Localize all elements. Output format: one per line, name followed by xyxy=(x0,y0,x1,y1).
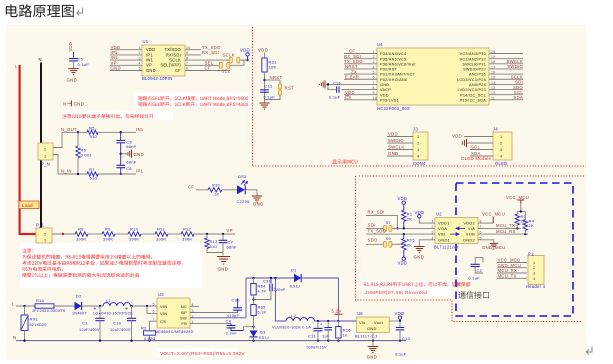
svg-text:VIB: VIB xyxy=(438,232,445,237)
blue dashed box - communication interface xyxy=(456,183,573,316)
wire N_IN rail xyxy=(58,173,87,175)
J3 pin 4 GND xyxy=(387,155,413,157)
regulator U6 BL1117 body xyxy=(357,317,390,333)
wire U1 pin8 SCLK xyxy=(185,59,230,61)
wire CF to R30 xyxy=(196,189,208,191)
svg-text:RV1: RV1 xyxy=(30,317,39,322)
white backdrop notice block xyxy=(20,243,202,288)
LED DS3 C2295 xyxy=(237,185,245,194)
svg-text:U4: U4 xyxy=(377,42,383,47)
svg-text:N: N xyxy=(13,335,17,340)
U1 left pin 1 VDD xyxy=(110,49,142,51)
svg-text:U6: U6 xyxy=(357,311,363,316)
svg-text:Vin: Vin xyxy=(359,320,365,325)
power port VDD above jumpers xyxy=(247,56,249,60)
wire L to P_L xyxy=(19,233,36,235)
svg-text:R10: R10 xyxy=(130,227,139,232)
svg-text:DS3: DS3 xyxy=(238,174,247,179)
resistor R64 xyxy=(253,278,255,284)
svg-text:GND_MCU: GND_MCU xyxy=(498,263,521,268)
wire R8-R9 xyxy=(88,233,102,235)
svg-text:1: 1 xyxy=(533,261,535,265)
svg-text:GND1: GND1 xyxy=(438,237,451,242)
svg-text:VDD: VDD xyxy=(452,134,462,139)
svg-text:CS: CS xyxy=(160,319,166,324)
svg-text:10uF/400V: 10uF/400V xyxy=(79,328,100,332)
jumper SEL pads xyxy=(219,62,222,68)
svg-text:R64: R64 xyxy=(258,284,267,289)
svg-text:MCU_RX: MCU_RX xyxy=(496,229,516,234)
svg-text:VLU0810-102K 0.1A: VLU0810-102K 0.1A xyxy=(272,326,311,330)
svg-text:SDO: SDO xyxy=(368,237,378,242)
svg-text:1K: 1K xyxy=(214,192,219,197)
svg-text:C13: C13 xyxy=(402,336,411,341)
J4 pin4 SDA xyxy=(470,155,493,157)
svg-text:Vout: Vout xyxy=(374,320,384,325)
svg-text:AN0/P24: AN0/P24 xyxy=(469,83,486,87)
svg-text:SWDIO: SWDIO xyxy=(388,138,404,143)
capacitor C12 xyxy=(327,321,329,327)
U1 left pin 5 GND xyxy=(110,70,142,72)
wire feedback node xyxy=(244,327,254,331)
resistor R13 xyxy=(206,234,208,238)
wire P_L to R8 xyxy=(52,233,75,235)
svg-text:MCU_TX: MCU_TX xyxy=(498,274,517,279)
svg-text:VOA: VOA xyxy=(438,226,447,231)
title 电路原理图 xyxy=(6,4,74,17)
svg-text:68nF: 68nF xyxy=(126,159,136,164)
svg-text:CF: CF xyxy=(188,184,194,189)
svg-text:6: 6 xyxy=(153,310,155,314)
svg-text:1: 1 xyxy=(500,135,502,139)
U1 left pin 4 VP xyxy=(110,64,142,66)
svg-text:P_L: P_L xyxy=(36,222,45,227)
svg-text:2: 2 xyxy=(432,225,434,229)
svg-text:P03/LVD1: P03/LVD1 xyxy=(380,98,399,102)
svg-text:OLED Module: OLED Module xyxy=(461,156,492,161)
wire P_N pin1 to N_IN xyxy=(53,155,58,175)
capacitor C16 on VACP xyxy=(342,89,378,91)
svg-text:1: 1 xyxy=(44,239,46,243)
ground left-pointing at U4 pin7 xyxy=(324,80,326,88)
svg-text:Load: Load xyxy=(22,203,33,208)
resistor R6 shunt xyxy=(76,146,80,158)
red dotted partition - display MCU section xyxy=(253,27,587,166)
svg-text:P14/I2C_SCL: P14/I2C_SCL xyxy=(460,93,486,97)
svg-text:SDI: SDI xyxy=(368,222,376,227)
svg-text:390K: 390K xyxy=(103,236,113,241)
inductor L1 xyxy=(103,303,131,306)
svg-text:C1: C1 xyxy=(82,321,88,326)
J3 pin 1 VDD xyxy=(387,136,413,138)
ground rail bottom xyxy=(16,340,406,342)
wire U4 right pin 18 xyxy=(489,63,523,65)
resistor R30 xyxy=(208,188,222,192)
P1 pin 1 VCC_MCU xyxy=(497,262,527,264)
wire SDI to S7 xyxy=(366,227,384,229)
connector P_N xyxy=(38,143,53,160)
wire U4 pin9 VDD xyxy=(344,94,377,96)
svg-text:C10: C10 xyxy=(113,321,122,326)
svg-text:P00/RST: P00/RST xyxy=(380,68,398,72)
capacitor C10 electrolytic xyxy=(131,306,133,318)
wire RX_SDI xyxy=(366,215,397,228)
wire L2 to U6 xyxy=(314,320,356,322)
wire S9 to R15 column xyxy=(392,243,404,245)
capacitor C2 decoupling xyxy=(475,258,483,264)
wire N_OUT rail xyxy=(62,131,87,133)
white backdrop gnd note xyxy=(61,111,173,120)
svg-text:U3: U3 xyxy=(158,292,164,297)
svg-text:P15/I2C_SDA: P15/I2C_SDA xyxy=(460,98,487,102)
J4 pin2 GND bars xyxy=(467,142,493,144)
Load tag xyxy=(19,201,39,209)
svg-text:SWCLK/P31: SWCLK/P31 xyxy=(462,62,486,66)
svg-text:+: + xyxy=(94,307,97,313)
svg-text:0.1uF: 0.1uF xyxy=(395,352,407,357)
svg-text:E.EAR: E.EAR xyxy=(345,74,359,79)
white backdrop vout note xyxy=(157,348,238,357)
svg-text:N_OUT: N_OUT xyxy=(61,127,77,132)
connector P_L xyxy=(36,228,52,243)
svg-text:C31: C31 xyxy=(263,278,272,283)
svg-text:JFC2410-0500TS: JFC2410-0500TS xyxy=(32,309,66,313)
svg-text:D2: D2 xyxy=(76,294,82,299)
svg-text:R8: R8 xyxy=(78,227,84,232)
svg-text:R30: R30 xyxy=(212,183,221,188)
wire U3 NC stub xyxy=(190,305,199,307)
power port VDD output xyxy=(399,319,401,321)
svg-text:MCU_TX: MCU_TX xyxy=(496,223,515,228)
svg-text:VDD: VDD xyxy=(398,260,408,265)
J3 pin 2 SWDIO xyxy=(387,142,413,144)
svg-text:P1: P1 xyxy=(528,251,534,256)
svg-text:U2: U2 xyxy=(436,212,442,217)
svg-text:OLED: OLED xyxy=(495,161,507,166)
svg-text:LVD2/VC0/P23: LVD2/VC0/P23 xyxy=(458,88,486,92)
svg-text:R9: R9 xyxy=(105,227,111,232)
wire U4 pin3 net TX_SDO xyxy=(344,63,377,65)
svg-text:N: N xyxy=(39,57,42,62)
wire U4 pin7 GND xyxy=(326,83,377,85)
white backdrop uart notes xyxy=(134,92,251,108)
wire U1 pin9 RX_SDI xyxy=(185,54,201,56)
resistor R65 xyxy=(251,305,256,316)
wire R11-R12 xyxy=(168,233,181,235)
wire S7 to U2 VOA xyxy=(392,227,435,229)
wire U4 pin1 net CF xyxy=(344,53,377,55)
power port VDD bottom of R15 xyxy=(402,257,405,260)
svg-text:RST: RST xyxy=(285,85,294,90)
svg-text:VDD: VDD xyxy=(398,196,408,201)
svg-text:VDD: VDD xyxy=(415,210,425,215)
annotation precision resistor notes xyxy=(22,248,33,252)
wire P_N pin2 to N_OUT xyxy=(53,132,62,147)
wire R14 to D2 xyxy=(54,305,75,307)
wire R12 to VP xyxy=(194,233,235,235)
svg-text:BP: BP xyxy=(181,310,187,315)
svg-text:SCLK: SCLK xyxy=(223,53,235,58)
svg-text:GND: GND xyxy=(253,202,264,207)
svg-text:CON4: CON4 xyxy=(413,161,426,166)
svg-text:GND: GND xyxy=(134,152,145,157)
svg-text:C11: C11 xyxy=(308,334,316,339)
capacitor C3 xyxy=(120,132,122,140)
svg-text:2.2nF: 2.2nF xyxy=(226,332,237,336)
resistor R1 xyxy=(402,210,406,222)
wire U3 FB to feedback xyxy=(190,322,231,324)
label 显示用MCU xyxy=(332,160,357,164)
wire TX_SDO to U2 VIB xyxy=(366,233,435,235)
svg-text:68nF: 68nF xyxy=(227,244,237,249)
resistor R15 xyxy=(403,234,405,238)
wire U1 pin6 CF xyxy=(185,70,230,72)
svg-text:3: 3 xyxy=(432,231,434,235)
inductor L2 xyxy=(275,278,286,321)
wire U1 pin10 TX_SDO xyxy=(185,49,201,51)
svg-text:C5: C5 xyxy=(78,57,84,62)
svg-text:P02/XHO/AN8: P02/XHO/AN8 xyxy=(380,78,407,82)
svg-text:SEL: SEL xyxy=(222,69,231,74)
svg-text:AN1/P26: AN1/P26 xyxy=(469,73,486,77)
svg-text:J3: J3 xyxy=(413,126,418,131)
wire SCLK jumper to VDD node xyxy=(240,59,248,61)
svg-text:BL1117-3.3: BL1117-3.3 xyxy=(355,333,378,338)
resistor R9 xyxy=(102,232,115,236)
wire L input xyxy=(16,305,35,307)
svg-text:4: 4 xyxy=(500,155,502,159)
svg-text:C2295: C2295 xyxy=(237,199,251,204)
jumper SCLK pads xyxy=(229,57,232,63)
svg-text:390K: 390K xyxy=(156,236,166,241)
svg-text:68nF: 68nF xyxy=(126,144,136,149)
wire U4 right pin 17 xyxy=(489,68,523,70)
wire U2 pin7 MCU_TX xyxy=(478,227,521,229)
svg-text:U1: U1 xyxy=(143,39,149,44)
wire U4 right pin 11 xyxy=(489,99,523,101)
svg-text:5: 5 xyxy=(153,303,155,307)
svg-text:R65: R65 xyxy=(258,305,267,310)
svg-text:510: 510 xyxy=(90,134,98,139)
svg-text:4: 4 xyxy=(533,277,535,281)
svg-text:L2: L2 xyxy=(291,313,296,318)
U2 internal arrows xyxy=(450,227,465,236)
annotation GND separate wiring xyxy=(62,114,153,119)
svg-text:VDD: VDD xyxy=(388,132,398,137)
resistor R31 xyxy=(262,58,267,72)
diode D2 1N4007 xyxy=(75,302,82,310)
svg-text:3: 3 xyxy=(417,148,419,152)
svg-text:GND: GND xyxy=(388,151,398,156)
op-amp U1 BL0942 body xyxy=(142,45,185,76)
annotation UART pull-up note xyxy=(364,282,470,287)
resistor R10 xyxy=(128,232,141,236)
svg-text:VCC_MCU: VCC_MCU xyxy=(506,195,529,200)
wire U4 pin4 net NRST xyxy=(344,68,377,70)
connector P1 Header4 xyxy=(528,256,544,285)
svg-text:P01/XHI/ANT/VC7: P01/XHI/ANT/VC7 xyxy=(380,73,415,77)
net label VCC_MCU at U2 pin8 xyxy=(478,222,493,224)
wire U4 right pin 19 xyxy=(489,58,523,60)
svg-text:VDD: VDD xyxy=(240,48,250,53)
svg-text:5.2V: 5.2V xyxy=(332,308,342,313)
svg-text:R16: R16 xyxy=(343,328,352,333)
svg-text:4: 4 xyxy=(417,155,419,159)
wire D1 to output node xyxy=(301,278,338,314)
svg-text:2: 2 xyxy=(533,266,535,270)
white backdrop pullup note xyxy=(362,280,452,296)
svg-text:2: 2 xyxy=(44,233,46,237)
svg-text:C6: C6 xyxy=(126,166,132,171)
J4 pin3 SCL xyxy=(470,149,493,151)
svg-text:C16: C16 xyxy=(333,81,342,86)
wire R6 vertical xyxy=(77,132,79,146)
svg-text:2K: 2K xyxy=(407,216,412,221)
ground between C3 and C6 xyxy=(121,153,126,155)
svg-text:2K: 2K xyxy=(407,243,412,248)
wire R5 to IN1 xyxy=(98,131,136,133)
svg-text:0.001: 0.001 xyxy=(81,153,93,158)
P1 pin 2 GND_MCU xyxy=(497,267,527,269)
svg-text:GND_MCU: GND_MCU xyxy=(482,245,505,250)
svg-text:SDA: SDA xyxy=(513,95,523,100)
svg-text:VC2/AN2/P32: VC2/AN2/P32 xyxy=(460,57,486,61)
svg-text:HC32F003_06S: HC32F003_06S xyxy=(377,106,410,111)
svg-text:NC: NC xyxy=(181,304,187,309)
svg-text:VDD1: VDD1 xyxy=(438,221,450,226)
svg-text:0.1uF: 0.1uF xyxy=(469,276,481,281)
svg-text:N_IN: N_IN xyxy=(61,169,72,174)
regulator U3 ME8604 body xyxy=(157,298,190,328)
ground for C5 xyxy=(68,68,78,70)
svg-text:2: 2 xyxy=(44,148,46,152)
svg-text:+: + xyxy=(125,307,128,313)
svg-text:VIN: VIN xyxy=(160,311,167,316)
wire U4 right pin 20 xyxy=(489,53,523,55)
wire R9-R10 xyxy=(115,233,128,235)
svg-text:CF: CF xyxy=(205,66,211,71)
varistor RV1 xyxy=(24,306,26,315)
label 通信接口 xyxy=(458,291,489,298)
J3 pin 3 SWCLK xyxy=(387,149,413,151)
svg-text:MCU_RX: MCU_RX xyxy=(498,268,518,273)
svg-text:2: 2 xyxy=(417,142,419,146)
svg-text:VACP: VACP xyxy=(380,88,391,92)
resistor R11 xyxy=(155,232,168,236)
svg-text:1K: 1K xyxy=(343,334,348,338)
svg-text:RX_SDI: RX_SDI xyxy=(368,209,385,214)
capacitor C15 xyxy=(260,89,269,91)
svg-text:N: N xyxy=(63,101,67,106)
svg-text:390K: 390K xyxy=(76,236,86,241)
wire U2 pin6 MCU_RX xyxy=(478,233,528,235)
capacitor C30 xyxy=(190,312,238,314)
svg-text:2: 2 xyxy=(139,51,141,55)
svg-text:1: 1 xyxy=(44,155,46,159)
svg-text:4.7K: 4.7K xyxy=(258,290,267,294)
svg-text:BL0942-10PIN: BL0942-10PIN xyxy=(142,76,172,81)
svg-text:0.1uF: 0.1uF xyxy=(264,95,276,100)
svg-text:S9: S9 xyxy=(386,236,392,241)
svg-text:3: 3 xyxy=(533,272,535,276)
svg-text:P34/AN4/VC4: P34/AN4/VC4 xyxy=(380,52,406,56)
svg-text:P35/AN5/VC5: P35/AN5/VC5 xyxy=(380,57,406,61)
U1 left pin 2 IP1 xyxy=(110,54,142,56)
svg-text:VDD: VDD xyxy=(258,48,268,53)
svg-text:ES1J: ES1J xyxy=(259,336,269,340)
resistor R7 xyxy=(87,172,98,176)
fusible resistor R14 xyxy=(35,304,54,308)
svg-text:C15: C15 xyxy=(265,83,274,88)
wire U4 right pin 12 xyxy=(489,94,523,96)
diode D3 ES1J xyxy=(250,331,258,337)
svg-text:NRST: NRST xyxy=(270,75,283,80)
svg-text:510: 510 xyxy=(90,176,98,181)
connector J4 OLED xyxy=(493,132,512,160)
svg-text:BLT1121AH: BLT1121AH xyxy=(434,245,458,250)
capacitor C5 xyxy=(69,58,78,60)
svg-text:GND: GND xyxy=(146,68,156,73)
wire U4 pin2 net RX_SDI xyxy=(344,58,377,60)
capacitor C11 electrolytic xyxy=(317,321,319,328)
svg-text:FB: FB xyxy=(181,321,187,326)
resistor R2 current sense xyxy=(150,321,158,330)
capacitor C8 xyxy=(230,323,232,325)
ground GND_MCU at U2 pin5 xyxy=(478,240,494,243)
svg-text:VOB: VOB xyxy=(466,232,475,237)
P1 pin 4 MCU_TX xyxy=(497,277,527,279)
svg-text:2: 2 xyxy=(500,142,502,146)
svg-text:L1: L1 xyxy=(106,298,111,303)
wire LED to ground xyxy=(245,190,257,196)
annotation UART mode notes xyxy=(138,96,248,101)
wire R7 to IP1 xyxy=(98,173,136,175)
svg-text:LCD3/VC1/P25: LCD3/VC1/P25 xyxy=(457,78,486,82)
svg-text:SW: SW xyxy=(180,315,187,320)
svg-text:VDD: VDD xyxy=(395,311,405,316)
wire U4 pin6 net E.EAR xyxy=(344,78,377,80)
svg-text:S7: S7 xyxy=(386,220,392,225)
svg-text:IP1: IP1 xyxy=(136,169,144,174)
wire L1 to U3 xyxy=(131,305,157,307)
resistor R8 xyxy=(75,232,88,236)
capacitor C6 xyxy=(120,154,122,165)
svg-text:CS: CS xyxy=(345,95,351,100)
svg-text:P36/AN6/VC6/Vref: P36/AN6/VC6/Vref xyxy=(380,62,416,66)
resistor R16 xyxy=(337,321,339,327)
wire U4 right pin 13 xyxy=(489,89,523,91)
svg-text:GND: GND xyxy=(67,78,78,83)
wire R31 to NRST node xyxy=(264,72,266,100)
svg-text:SCL: SCL xyxy=(471,145,480,150)
svg-text:10uF/400V: 10uF/400V xyxy=(110,328,131,332)
ground U2 left xyxy=(419,240,435,246)
wire VCC_MCU to R3 R4 xyxy=(520,204,522,212)
svg-text:L: L xyxy=(12,301,15,306)
svg-text:SWDIO/P27: SWDIO/P27 xyxy=(463,68,486,72)
mcu U4 HC32F003 body xyxy=(377,48,489,105)
svg-text:L: L xyxy=(15,64,18,69)
wire U4 pin5 net ZX xyxy=(344,73,377,75)
svg-text:CF: CF xyxy=(175,68,181,73)
svg-text:5: 5 xyxy=(139,67,141,71)
svg-text:,JUMPER(S7,S9) Reversed: ,JUMPER(S7,S9) Reversed xyxy=(364,290,428,295)
wire U4 right pin 16 xyxy=(489,73,523,75)
svg-text:GND2: GND2 xyxy=(463,237,476,242)
svg-text:Header 4: Header 4 xyxy=(526,284,546,289)
svg-text:SWCLK: SWCLK xyxy=(388,145,405,150)
svg-text:3: 3 xyxy=(500,148,502,152)
